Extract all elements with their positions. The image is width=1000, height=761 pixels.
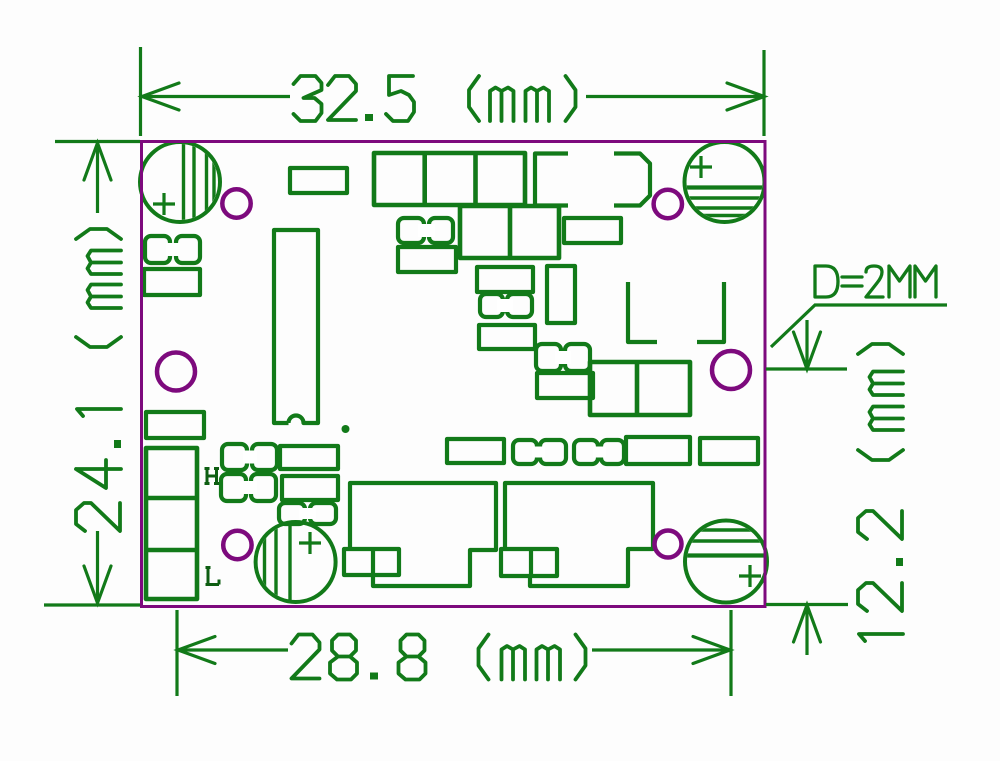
dim 24.1 extension lines xyxy=(55,140,140,143)
arrow left-bottom xyxy=(84,566,111,603)
arrow right-top xyxy=(794,332,821,369)
hole B2 D=2MM xyxy=(712,351,750,389)
dim 28.8 extension ticks xyxy=(175,610,178,696)
text 32.5 (mm) xyxy=(294,76,576,121)
corner mark left xyxy=(628,282,657,342)
resistor R2 xyxy=(398,247,456,272)
pad pair P4 xyxy=(222,444,277,470)
hole S1 xyxy=(222,189,250,217)
dim 32.5 line xyxy=(143,95,290,98)
hole B1 D=2MM xyxy=(157,353,195,391)
dim 24.1 line xyxy=(96,145,99,213)
pad pair P7 xyxy=(513,440,566,464)
resistor R6 xyxy=(479,325,535,349)
arrow bottom-right xyxy=(693,637,730,664)
text D=2MM xyxy=(815,266,936,297)
pad pair PA xyxy=(145,236,200,263)
2-cell box B xyxy=(590,362,690,415)
2-cell box A xyxy=(460,206,559,258)
text 12.2 (mm) rotated xyxy=(858,344,903,641)
capacitor C3 bottom-left xyxy=(256,520,336,604)
label H xyxy=(205,469,220,484)
bottom row R12 xyxy=(626,437,690,464)
resistor R9 xyxy=(280,446,338,469)
capacitor C1 top-left xyxy=(140,140,220,224)
transformer T2 outline xyxy=(505,483,653,586)
connector 3-cell top xyxy=(374,153,525,205)
resistor R8 xyxy=(146,412,204,438)
arrow right-bottom xyxy=(794,605,821,642)
resistor R1 top xyxy=(290,168,347,193)
capacitor C2 top-right xyxy=(682,142,767,222)
bracket right footprint xyxy=(614,154,650,206)
pad pair P2 xyxy=(480,294,532,317)
leader line D=2MM xyxy=(771,305,947,347)
dot marker xyxy=(342,425,350,433)
hole S3 xyxy=(223,531,251,559)
pad pair P5 xyxy=(221,474,276,501)
arrow top-left xyxy=(142,83,179,110)
arrow top-right xyxy=(727,83,764,110)
resistor R3 xyxy=(564,218,621,243)
IC U1 tall with notch xyxy=(274,230,318,423)
hole S2 xyxy=(654,190,682,218)
pad pair P3 xyxy=(536,344,590,371)
hole S4 xyxy=(655,531,682,558)
arrow bottom-left xyxy=(178,637,215,664)
resistor R7 xyxy=(537,373,593,398)
connector 3-cell vertical left xyxy=(146,448,197,599)
transformer T1 outline xyxy=(350,483,496,586)
arrow left-top xyxy=(84,143,111,180)
pad pair P8 xyxy=(574,440,624,464)
dim 32.5 extension ticks xyxy=(139,47,142,136)
text 24.1 (mm) rotated xyxy=(76,229,121,531)
label L xyxy=(206,568,220,585)
bracket left footprint xyxy=(535,154,568,206)
bottom row R11 xyxy=(447,439,504,463)
text 28.8 (mm) xyxy=(292,635,586,680)
bottom row R13 xyxy=(700,438,758,464)
dim 12.2 arrows xyxy=(805,320,808,367)
capacitor C4 bottom-right xyxy=(684,521,768,603)
resistor R5 xyxy=(477,267,533,292)
resistor R0 below PA xyxy=(144,269,200,295)
PCB board outline xyxy=(142,142,766,607)
pad pair P1 xyxy=(398,218,453,243)
resistor R10 xyxy=(282,476,338,500)
dim 28.8 line xyxy=(179,648,288,651)
dim 12.2 extension lines xyxy=(766,367,847,370)
corner mark right xyxy=(697,282,724,342)
pad pair P6 xyxy=(279,503,336,524)
capacitor R4 vertical xyxy=(547,266,575,323)
